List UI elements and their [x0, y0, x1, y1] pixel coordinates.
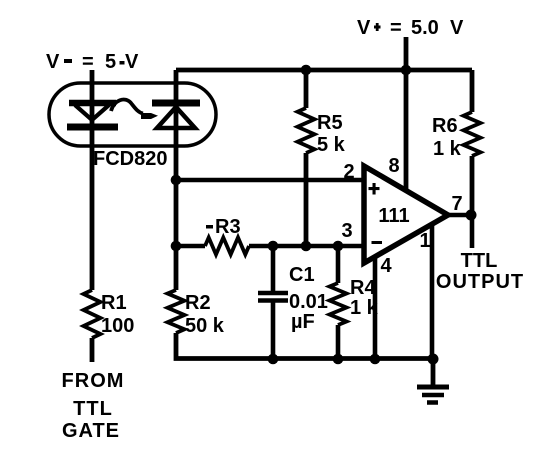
svg-text:R4: R4	[350, 277, 376, 299]
svg-text:100: 100	[101, 315, 134, 337]
svg-text:V: V	[46, 51, 60, 73]
node B: photodiode line / pin 3 row	[171, 241, 182, 252]
resistor R1	[84, 290, 101, 362]
resistor R2	[168, 290, 185, 333]
label: V- = 5 V	[46, 51, 139, 73]
label: V+ = 5.0 V	[357, 17, 464, 39]
svg-text:µF: µF	[291, 311, 315, 333]
svg-text:50 k: 50 k	[185, 315, 225, 337]
svg-text:4: 4	[380, 255, 392, 277]
wire: V+ supply stub down through top rail to comparator pin 8	[404, 37, 409, 192]
wire: TTL output stub	[470, 215, 475, 248]
label: - input marker	[372, 241, 383, 244]
svg-text:R5: R5	[317, 112, 343, 134]
svg-text:1 k: 1 k	[433, 138, 462, 160]
svg-text:GATE: GATE	[62, 420, 120, 442]
svg-text:7: 7	[451, 193, 462, 215]
svg-text:5.0: 5.0	[411, 17, 439, 39]
junction: R4 bottom / bottom rail	[333, 354, 344, 365]
svg-text:FCD820: FCD820	[93, 148, 167, 170]
svg-text:V: V	[125, 51, 139, 73]
svg-text:R2: R2	[185, 292, 211, 314]
wire: node A to comparator pin 2 (+ input)	[176, 178, 366, 183]
svg-text:TTL: TTL	[73, 398, 113, 420]
junction: output node pin 7	[466, 210, 477, 221]
svg-text:V: V	[450, 17, 464, 39]
svg-text:R6: R6	[432, 115, 458, 137]
wire: comparator pin 4 down to bottom rail	[373, 255, 378, 358]
wire: comparator output pin 7 to R6 / TTL output node	[448, 213, 472, 218]
label: -R3	[206, 225, 213, 229]
svg-text:5: 5	[105, 51, 116, 73]
resistor R6	[464, 70, 481, 215]
svg-text:OUTPUT: OUTPUT	[436, 271, 524, 293]
svg-text:3: 3	[341, 220, 352, 242]
wire: V- supply lead down through opto LED to R1	[90, 70, 95, 290]
resistor R4	[330, 246, 347, 359]
svg-text:R3: R3	[215, 216, 241, 238]
svg-text:C1: C1	[289, 264, 315, 286]
junction: R4 top / pin 3 row	[333, 241, 344, 252]
junction: C1 bottom / bottom rail	[268, 354, 279, 365]
svg-text:V: V	[357, 17, 371, 39]
junction: R5 / top rail	[301, 65, 312, 76]
op-amp comparator U2 LM111	[364, 166, 448, 263]
resistor R5	[298, 70, 315, 246]
svg-text:8: 8	[388, 155, 399, 177]
wire: node B row right segment to comparator pin 3 (- input)	[249, 244, 366, 249]
svg-text:FROM: FROM	[62, 370, 125, 392]
wire: photodiode lead from top rail down through node A and node B to R2	[174, 70, 179, 290]
junction: V+ stub / top rail	[401, 65, 412, 76]
svg-text:R1: R1	[101, 292, 127, 314]
wire: top rail from opto photodiode to R6	[176, 68, 472, 73]
wire: node B row (pin 3 row) left segment	[176, 244, 205, 249]
junction: R5 bottom / pin 3 row	[301, 241, 312, 252]
svg-text:TTL: TTL	[461, 250, 498, 272]
junction: pin 4 / bottom rail	[370, 354, 381, 365]
junction: C1 top / pin 3 row	[268, 241, 279, 252]
svg-text:=: =	[82, 51, 94, 73]
opto photodiode (right diode, cathode up)	[152, 103, 200, 128]
label: + input marker	[369, 183, 380, 195]
junction: ground node / bottom rail	[428, 354, 439, 365]
wire: bottom rail from R2 to ground node	[176, 333, 433, 359]
optocoupler U1 FCD820 package outline	[49, 83, 216, 146]
node A: photodiode anode / pin 2 wire	[171, 175, 182, 186]
svg-text:111: 111	[378, 205, 409, 227]
svg-text:5 k: 5 k	[317, 134, 346, 156]
opto light-coupling squiggle arrow	[111, 100, 158, 119]
svg-text:1: 1	[419, 230, 430, 252]
wire: comparator pin 1 down to bottom rail	[430, 221, 435, 358]
capacitor C1	[258, 246, 288, 359]
ground	[417, 358, 449, 403]
opto LED (left diode, cathode down)	[67, 103, 118, 127]
resistor R3	[205, 238, 249, 255]
svg-text:0.01: 0.01	[289, 291, 328, 313]
svg-text:=: =	[390, 17, 402, 39]
svg-text:1 k: 1 k	[350, 297, 379, 319]
svg-text:2: 2	[343, 161, 354, 183]
